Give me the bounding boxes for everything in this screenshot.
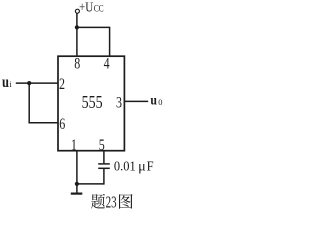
- wire: down into pin 4: [109, 27, 111, 57]
- svg-text:u: u: [150, 93, 157, 108]
- power terminal +Ucc (open circle): [75, 9, 79, 13]
- svg-text:8: 8: [74, 55, 80, 72]
- svg-text:3: 3: [116, 94, 122, 111]
- junction dot on input wire: [27, 81, 31, 85]
- svg-text:6: 6: [59, 116, 65, 133]
- caption: figure for problem 23: [91, 192, 133, 211]
- wire: capacitor bottom lead: [103, 169, 105, 185]
- wire: ui input to pin 2: [16, 82, 58, 84]
- label u0 (output): [150, 93, 162, 108]
- wire: junction down (to pin 6 branch): [28, 83, 30, 123]
- svg-text:μ: μ: [138, 158, 146, 173]
- svg-text:+U: +U: [79, 0, 93, 15]
- op IC U1: 555 timer box: [58, 56, 124, 151]
- svg-text:0: 0: [158, 97, 162, 107]
- wire: junction right toward pin 4: [76, 26, 109, 28]
- svg-text:0.01: 0.01: [114, 159, 136, 174]
- wire: pin 3 output: [124, 100, 148, 102]
- svg-text:u: u: [2, 74, 9, 91]
- junction dot on Ucc wire: [75, 25, 79, 29]
- label +Ucc: [79, 0, 104, 15]
- label 0.01 uF: [114, 158, 154, 174]
- wire: ground node right to capacitor branch: [77, 183, 104, 185]
- label ui (input): [2, 74, 12, 91]
- svg-text:CC: CC: [94, 3, 104, 13]
- svg-text:555: 555: [82, 92, 103, 112]
- wire: pin 5 down to capacitor: [103, 151, 105, 164]
- capacitor C1 0.01uF plates: [98, 164, 110, 168]
- svg-text:2: 2: [59, 76, 65, 93]
- svg-text:23: 23: [106, 192, 117, 211]
- svg-text:1: 1: [71, 137, 77, 154]
- svg-text:F: F: [147, 159, 154, 174]
- wire: pin 1 down to ground: [76, 151, 78, 184]
- svg-text:4: 4: [104, 55, 110, 72]
- ground symbol: [71, 184, 83, 194]
- wire: across into pin 6: [28, 122, 58, 124]
- svg-text:i: i: [9, 79, 12, 89]
- junction dot at ground node: [75, 182, 79, 186]
- wire: Ucc terminal down to pin 8: [76, 13, 78, 56]
